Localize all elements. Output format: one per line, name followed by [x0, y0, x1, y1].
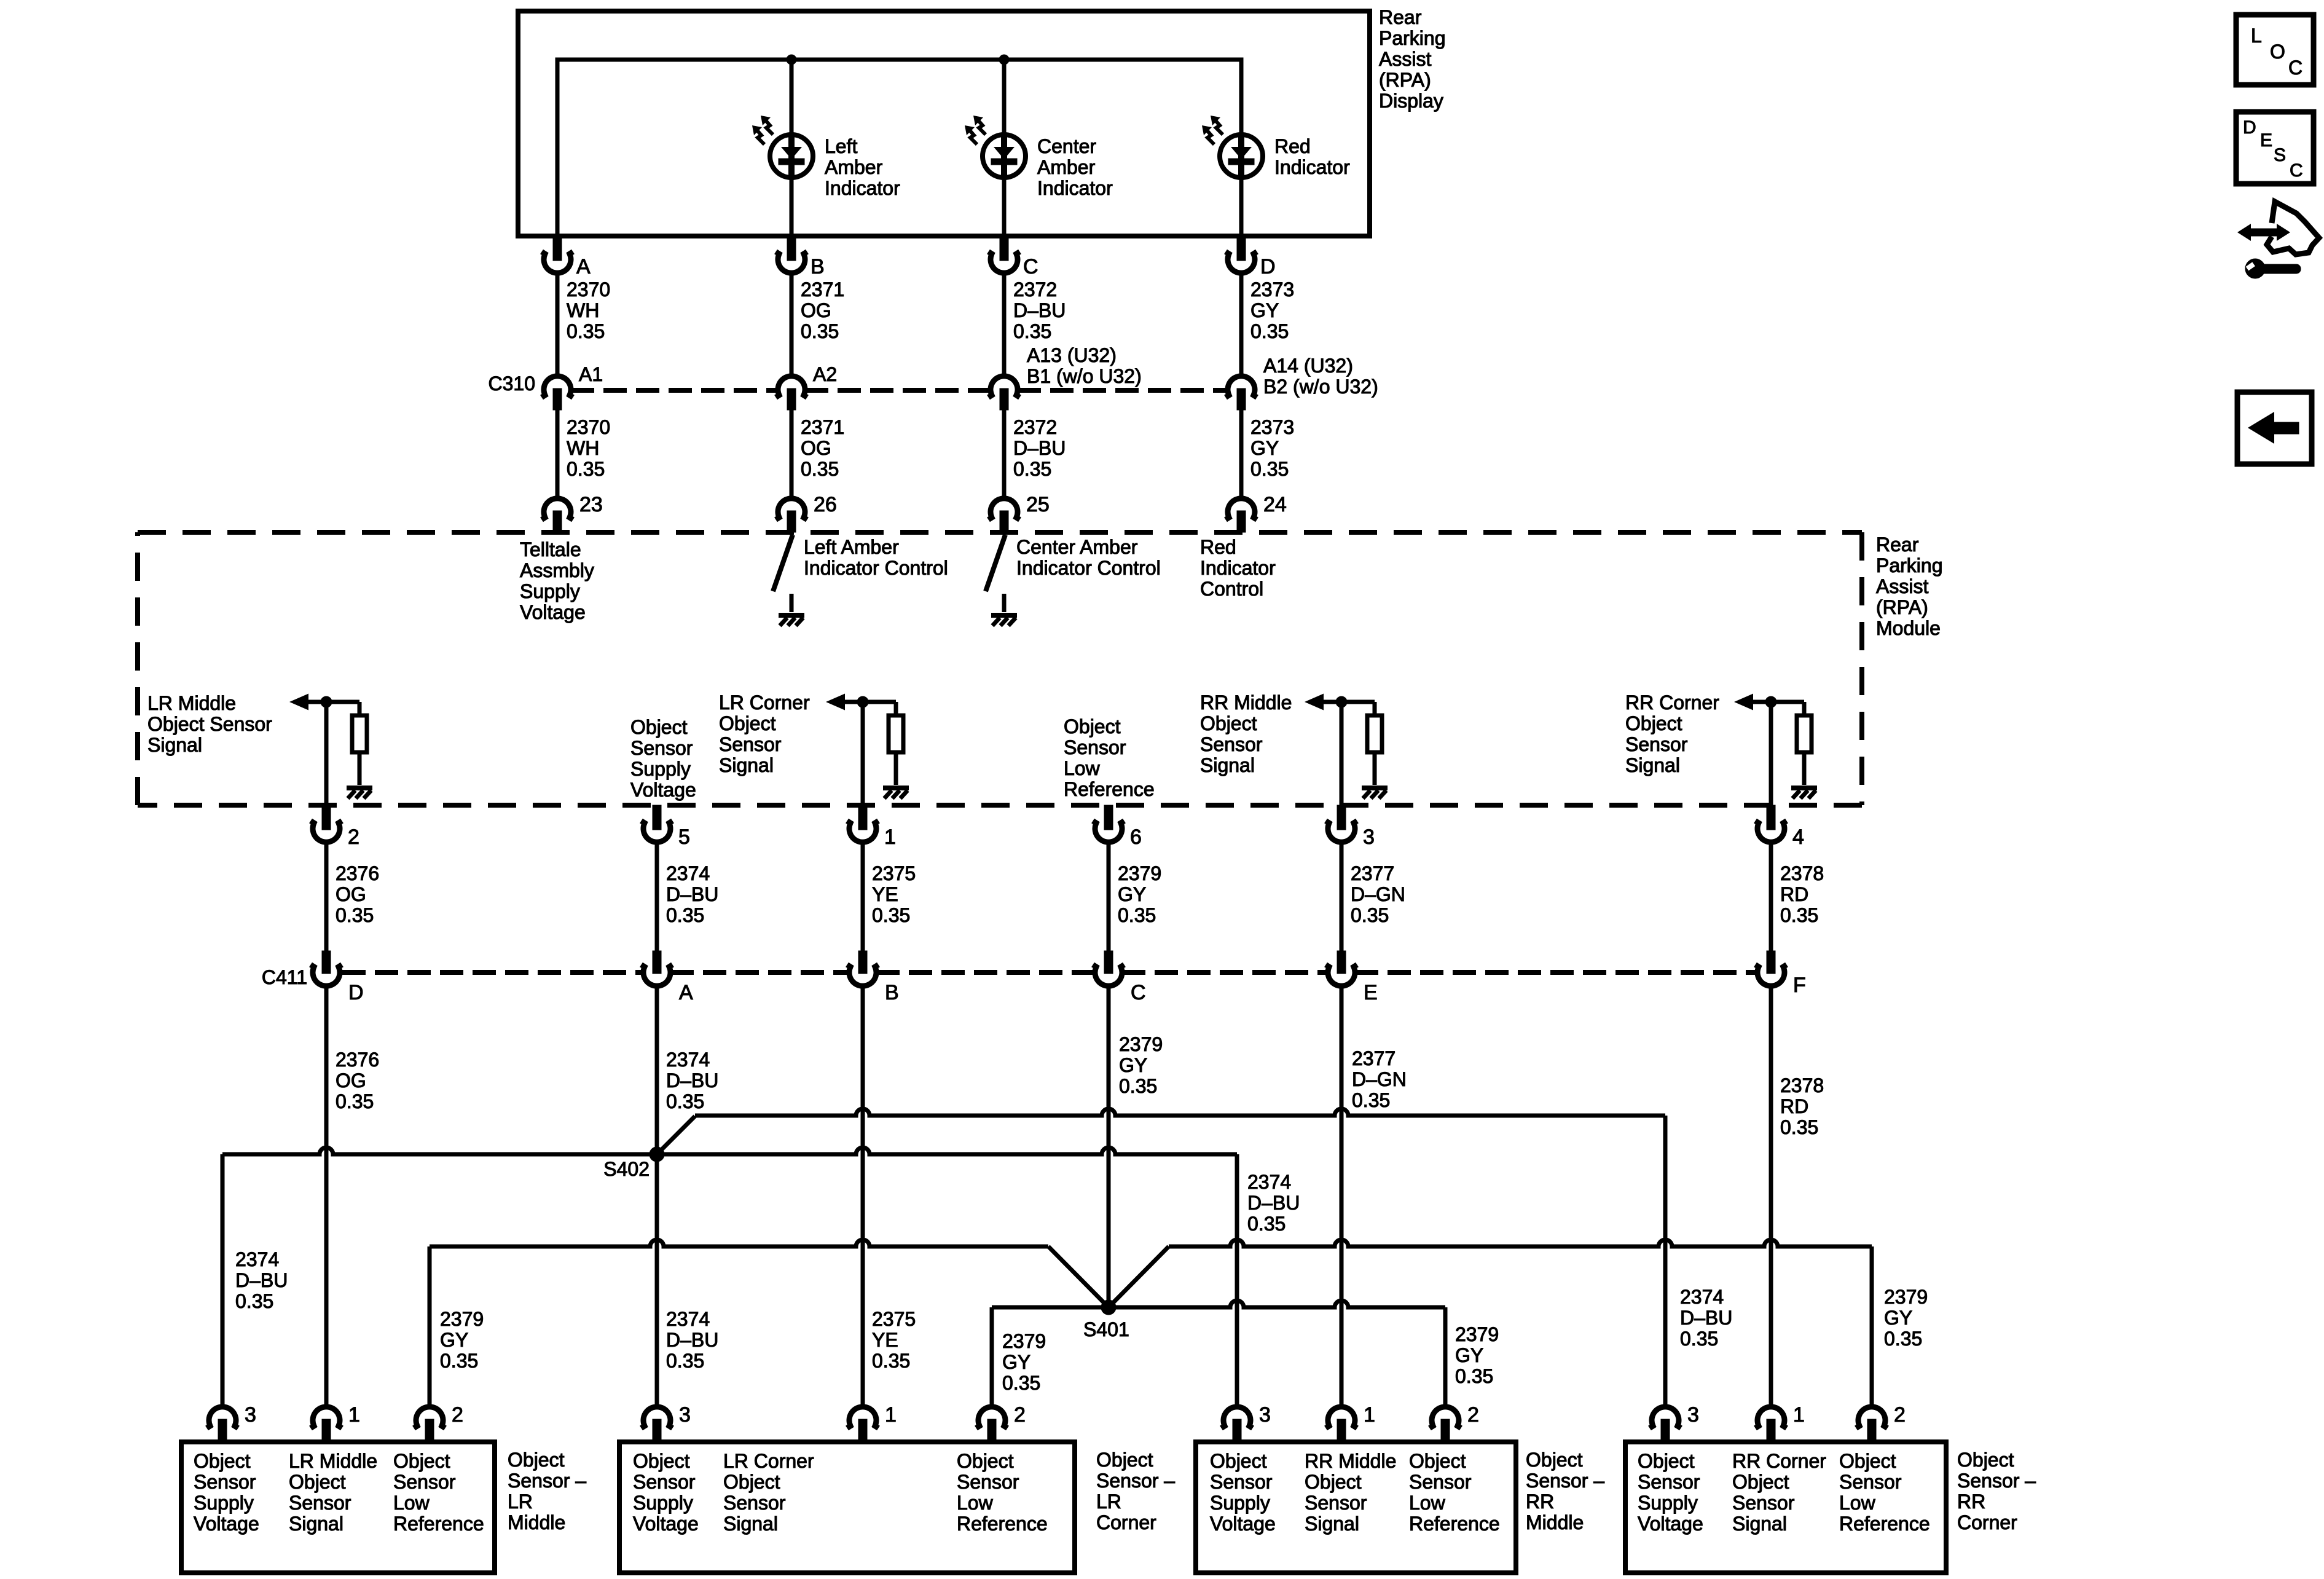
C310 terminal at x=1288	[776, 376, 807, 398]
svg-text:2379: 2379	[440, 1308, 484, 1330]
switch: Center Amber Indicator Control driver	[986, 535, 1005, 591]
svg-text:A1: A1	[579, 363, 603, 385]
svg-text:6: 6	[1130, 825, 1142, 849]
label: circuit 2377 D–GN	[1351, 862, 1405, 926]
svg-text:Signal: Signal	[147, 734, 202, 756]
label: RPA Module title	[1876, 534, 1943, 639]
svg-text:RD: RD	[1780, 883, 1808, 905]
svg-text:Assist: Assist	[1379, 48, 1431, 70]
svg-text:Left Amber: Left Amber	[804, 536, 899, 558]
svg-text:Object: Object	[1957, 1449, 2014, 1471]
svg-text:Sensor: Sensor	[194, 1471, 256, 1493]
icon: wrench	[2245, 259, 2301, 278]
ground: RR Middle resistor return	[1362, 788, 1388, 798]
label: circuit 2379 GY (branch)	[1884, 1286, 1928, 1350]
svg-text:0.35: 0.35	[801, 320, 839, 342]
svg-text:Signal: Signal	[719, 754, 774, 776]
svg-text:2: 2	[1894, 1403, 1906, 1427]
node: RR Corner signal junction	[1765, 696, 1776, 707]
svg-text:2371: 2371	[801, 278, 844, 301]
svg-text:Sensor: Sensor	[393, 1471, 456, 1493]
svg-text:Sensor –: Sensor –	[1957, 1470, 2036, 1492]
svg-text:Voltage: Voltage	[194, 1513, 259, 1535]
svg-text:D–GN: D–GN	[1351, 883, 1405, 905]
C310 terminal at x=907	[542, 376, 573, 398]
label: circuit 2372 D–BU (lower)	[1013, 416, 1066, 480]
label: circuit 2370 WH (lower)	[567, 416, 610, 480]
label: RR Middle object sensor Object...	[1409, 1450, 1500, 1535]
svg-text:2374: 2374	[666, 1308, 710, 1330]
svg-text:0.35: 0.35	[1680, 1328, 1718, 1350]
svg-text:0.35: 0.35	[666, 1090, 704, 1112]
pin 6 of RPA module lower connector	[1104, 805, 1113, 830]
svg-text:2: 2	[452, 1403, 463, 1427]
wire branch: low reference to LR Corner pin 2	[990, 1307, 994, 1407]
svg-text:Amber: Amber	[825, 156, 883, 178]
svg-text:O: O	[2270, 41, 2285, 63]
LED: Center Amber Indicator	[965, 116, 1026, 178]
ground	[991, 615, 1017, 626]
svg-text:1: 1	[885, 1403, 897, 1427]
svg-text:RR: RR	[1526, 1490, 1554, 1513]
label: RR Middle object sensor title	[1526, 1449, 1604, 1534]
svg-text:Display: Display	[1379, 90, 1443, 112]
svg-text:F: F	[1793, 974, 1806, 997]
svg-text:2370: 2370	[567, 416, 610, 438]
svg-text:LR: LR	[508, 1490, 533, 1513]
label: RR Corner object sensor Object...	[1638, 1450, 1703, 1535]
svg-text:Telltale: Telltale	[520, 538, 581, 561]
svg-text:Voltage: Voltage	[630, 779, 696, 801]
svg-text:0.35: 0.35	[1013, 458, 1051, 480]
label: circuit 2374 D–BU (branch)	[1247, 1171, 1300, 1235]
svg-text:Control: Control	[1200, 578, 1263, 600]
svg-text:2373: 2373	[1250, 278, 1294, 301]
node: RR Middle signal junction	[1336, 696, 1347, 707]
svg-text:Object: Object	[630, 716, 688, 738]
wire branch: low reference to RR Corner pin 2	[1870, 1246, 1874, 1407]
svg-text:1: 1	[1364, 1403, 1375, 1427]
svg-text:LR: LR	[1096, 1490, 1121, 1513]
svg-text:0.35: 0.35	[1352, 1089, 1390, 1111]
label: LR Middle object sensor LR Middle...	[289, 1450, 377, 1535]
svg-text:0.35: 0.35	[872, 904, 910, 926]
svg-text:0.35: 0.35	[666, 1350, 704, 1372]
pin 5 of RPA module lower connector	[653, 805, 661, 830]
wire branch: low reference to LR Middle pin 2	[428, 1246, 432, 1407]
svg-text:Left: Left	[825, 135, 857, 157]
pin 2 of LR Middle object sensor	[414, 1407, 446, 1428]
svg-text:2374: 2374	[1247, 1171, 1291, 1193]
svg-text:2374: 2374	[1680, 1286, 1724, 1308]
label: circuit 2379 GY (branch)	[1455, 1323, 1499, 1387]
label: circuit 2374 D–BU (branch)	[235, 1248, 288, 1312]
C411 terminal F	[1767, 951, 1775, 974]
node: splice S401	[1101, 1300, 1116, 1315]
svg-text:S: S	[2274, 145, 2286, 165]
icon: wiring repair (arrow + panel + wrench)	[2267, 202, 2319, 254]
arrow: LR Corner signal	[826, 694, 845, 711]
svg-text:Sensor: Sensor	[1305, 1492, 1367, 1514]
wire segment C310 to RPA module	[1239, 410, 1244, 498]
pin 1 of LR Middle object sensor	[311, 1407, 342, 1428]
svg-text:RR Corner: RR Corner	[1625, 691, 1719, 714]
svg-text:Indicator Control: Indicator Control	[804, 557, 948, 579]
box: RR Corner object sensor	[1625, 1442, 1946, 1573]
svg-text:RR: RR	[1957, 1490, 1985, 1513]
svg-text:D–BU: D–BU	[666, 1329, 718, 1351]
label: circuit 2378 RD (below C411)	[1780, 1074, 1824, 1138]
svg-text:Voltage: Voltage	[1210, 1513, 1276, 1535]
box: LR Corner object sensor	[619, 1442, 1075, 1573]
svg-text:GY: GY	[1250, 299, 1279, 321]
svg-text:(RPA): (RPA)	[1876, 596, 1928, 618]
pin B of RPA display connector	[787, 238, 796, 261]
label: Object Sensor Supply Voltage	[630, 716, 696, 801]
label: circuit 2373 GY (lower)	[1250, 416, 1294, 480]
wire: S401 to LR Corner pin 2	[992, 1305, 1109, 1310]
svg-text:Object: Object	[1625, 712, 1682, 734]
svg-text:2: 2	[348, 825, 359, 849]
label: LR Corner object sensor LR Corner...	[723, 1450, 814, 1535]
wire 2370 segment display to C310	[555, 273, 560, 376]
pin 1 of RR Middle object sensor	[1326, 1407, 1357, 1428]
svg-text:2377: 2377	[1352, 1047, 1396, 1069]
resistor: RR Corner pull-up	[1797, 715, 1812, 752]
pin 3 of LR Middle object sensor	[207, 1407, 238, 1428]
label: Center Amber Indicator	[1037, 135, 1113, 199]
svg-text:Signal: Signal	[1200, 754, 1255, 776]
svg-text:0.35: 0.35	[1118, 904, 1156, 926]
svg-text:C: C	[1023, 255, 1038, 278]
svg-text:S402: S402	[603, 1158, 650, 1180]
arrow: LR Middle signal	[289, 694, 308, 711]
label: C310 pin A14/B2	[1263, 355, 1378, 398]
label: LR Corner Object Sensor Signal	[719, 691, 810, 776]
connector C411 dashed line	[342, 970, 643, 975]
arrow: RR Middle signal	[1305, 694, 1324, 711]
svg-text:1: 1	[1793, 1403, 1805, 1427]
svg-text:Sensor: Sensor	[1625, 733, 1688, 755]
wire: RR Corner signal to pin	[1769, 702, 1773, 805]
svg-text:L: L	[2251, 25, 2262, 47]
label: RR Middle object sensor RR Middle...	[1305, 1450, 1396, 1535]
wire: diagonal from splice S401 (right)	[1109, 1246, 1169, 1307]
svg-text:C: C	[2288, 57, 2302, 79]
svg-text:0.35: 0.35	[336, 1090, 374, 1112]
wire 2379 GY: C411 C to splice S401	[1107, 986, 1111, 1307]
svg-text:0.35: 0.35	[1250, 458, 1289, 480]
svg-text:2374: 2374	[666, 862, 710, 884]
svg-text:B: B	[811, 255, 825, 278]
svg-text:Low: Low	[1839, 1492, 1876, 1514]
wire: S402 supply bus right segment	[657, 1148, 1237, 1154]
svg-text:2379: 2379	[1119, 1033, 1163, 1055]
svg-text:Sensor: Sensor	[1839, 1471, 1902, 1493]
label: circuit 2379 GY (branch)	[440, 1308, 484, 1372]
svg-text:A: A	[679, 981, 693, 1004]
svg-text:2379: 2379	[1455, 1323, 1499, 1345]
label: circuit 2374 D–BU (below C411)	[666, 1049, 718, 1112]
label: circuit 2375 YE (branch)	[872, 1308, 916, 1372]
wire: left amber indicator branch	[790, 60, 794, 236]
label: splice S401	[1083, 1318, 1129, 1341]
wire segment C310 to RPA module	[555, 410, 560, 498]
wire 2377 D-GN: C411 E to RR Middle sensor pin 1	[1340, 986, 1344, 1407]
svg-text:0.35: 0.35	[440, 1350, 478, 1372]
wire: low reference run to RR Corner pin 2	[1169, 1240, 1872, 1246]
svg-text:Object: Object	[633, 1450, 690, 1472]
pin 23 of RPA module	[542, 498, 573, 520]
svg-text:Object: Object	[289, 1471, 346, 1493]
resistor: LR Middle pull-up	[352, 715, 367, 752]
label: splice S402	[603, 1158, 650, 1180]
C411 terminal A	[653, 951, 661, 974]
label: RPA Display title	[1379, 6, 1446, 112]
svg-text:GY: GY	[1250, 437, 1279, 459]
svg-text:D–GN: D–GN	[1352, 1068, 1407, 1090]
svg-text:Indicator: Indicator	[1200, 557, 1276, 579]
svg-text:D–BU: D–BU	[1013, 299, 1066, 321]
label: circuit 2373 GY	[1250, 278, 1294, 342]
svg-text:E: E	[2260, 130, 2272, 151]
svg-text:Object: Object	[1732, 1471, 1789, 1493]
label: LR Middle object sensor Object...	[393, 1450, 484, 1535]
svg-text:0.35: 0.35	[1247, 1213, 1286, 1235]
svg-text:Center Amber: Center Amber	[1016, 536, 1138, 558]
label: LR Middle object sensor Object...	[194, 1450, 259, 1535]
connector C310 dashed line	[571, 388, 778, 393]
box: LR Middle object sensor	[181, 1442, 495, 1573]
svg-text:26: 26	[814, 493, 837, 516]
svg-text:Object: Object	[1096, 1449, 1153, 1471]
label: Object Sensor Low Reference	[1064, 715, 1155, 800]
svg-text:YE: YE	[872, 1329, 898, 1351]
svg-text:2379: 2379	[1002, 1330, 1046, 1352]
pin 2 of RPA module lower connector	[322, 805, 331, 830]
arrow: RR Corner signal	[1734, 694, 1753, 711]
svg-text:Sensor: Sensor	[957, 1471, 1019, 1493]
svg-text:E: E	[1364, 981, 1378, 1004]
svg-text:Indicator: Indicator	[825, 177, 900, 199]
label: LR Middle Object Sensor Signal	[147, 692, 272, 756]
wire branch: supply to RR Middle pin 3	[1235, 1154, 1239, 1407]
svg-text:23: 23	[579, 493, 603, 516]
svg-text:GY: GY	[1884, 1307, 1912, 1329]
label: C310 pin A2	[813, 363, 837, 385]
svg-text:D–BU: D–BU	[666, 883, 718, 905]
svg-text:D–BU: D–BU	[1247, 1192, 1300, 1214]
svg-text:Sensor –: Sensor –	[1096, 1470, 1175, 1492]
label: circuit 2372 D–BU	[1013, 278, 1066, 342]
svg-text:LR Corner: LR Corner	[719, 691, 810, 714]
svg-text:Object: Object	[957, 1450, 1014, 1472]
svg-text:GY: GY	[440, 1329, 468, 1351]
pin A of RPA display connector	[553, 238, 562, 261]
node: LR Corner signal junction	[857, 696, 868, 707]
svg-text:Corner: Corner	[1957, 1511, 2017, 1534]
svg-text:3: 3	[1259, 1403, 1271, 1427]
ground: LR Middle resistor return	[347, 788, 372, 798]
svg-text:0.35: 0.35	[336, 904, 374, 926]
svg-text:Supply: Supply	[633, 1492, 693, 1514]
svg-text:(RPA): (RPA)	[1379, 69, 1431, 91]
svg-text:0.35: 0.35	[567, 320, 605, 342]
pin 24 of RPA module	[1226, 498, 1257, 520]
svg-text:Middle: Middle	[1526, 1511, 1584, 1534]
svg-text:Rear: Rear	[1876, 534, 1919, 556]
wire: display internal supply bus	[557, 60, 1241, 236]
label: circuit 2370 WH	[567, 278, 610, 342]
svg-text:Sensor –: Sensor –	[1526, 1470, 1604, 1492]
icon: DESC box	[2236, 112, 2314, 184]
pin 26 of RPA module	[776, 498, 807, 520]
resistor: RR Middle pull-up	[1367, 715, 1382, 752]
label: Left Amber Indicator Control	[804, 536, 948, 579]
svg-text:Reference: Reference	[1064, 778, 1155, 800]
svg-text:3: 3	[1687, 1403, 1699, 1427]
svg-text:2374: 2374	[666, 1049, 710, 1071]
display box: Rear Parking Assist (RPA) Display	[518, 11, 1370, 236]
wire 2371 segment display to C310	[790, 273, 794, 376]
C411 terminal D	[322, 951, 331, 974]
svg-text:RR Middle: RR Middle	[1305, 1450, 1396, 1472]
label: Telltale Assmbly Supply Voltage	[520, 538, 594, 623]
svg-text:0.35: 0.35	[1884, 1328, 1922, 1350]
pin 1 of RPA module lower connector	[858, 805, 867, 830]
label: Center Amber Indicator Control	[1016, 536, 1161, 579]
svg-text:0.35: 0.35	[666, 904, 704, 926]
svg-text:2373: 2373	[1250, 416, 1294, 438]
svg-text:C411: C411	[262, 966, 307, 988]
label: RR Corner Object Sensor Signal	[1625, 691, 1719, 776]
ground: LR Corner resistor return	[883, 788, 909, 798]
svg-text:Object: Object	[1210, 1450, 1267, 1472]
C411 terminal B	[858, 951, 867, 974]
svg-text:2378: 2378	[1780, 862, 1824, 884]
svg-text:Object: Object	[719, 712, 776, 734]
svg-text:Assist: Assist	[1876, 575, 1928, 597]
svg-text:Supply: Supply	[630, 758, 691, 780]
label: circuit 2371 OG (lower)	[801, 416, 844, 480]
label: RR Middle Object Sensor Signal	[1200, 691, 1292, 776]
svg-text:Sensor: Sensor	[289, 1492, 351, 1514]
wire: LR Middle signal to pin	[324, 702, 329, 805]
svg-text:OG: OG	[801, 299, 831, 321]
svg-text:Signal: Signal	[289, 1513, 343, 1535]
svg-text:2379: 2379	[1884, 1286, 1928, 1308]
svg-text:B: B	[885, 981, 899, 1004]
label: connector C411	[262, 966, 307, 988]
C411 terminal E	[1337, 951, 1346, 974]
label: circuit 2379 GY (below C411)	[1119, 1033, 1163, 1097]
label: circuit 2376 OG	[336, 862, 379, 926]
wire 2378 RD: C411 F to RR Corner sensor pin 1	[1769, 986, 1773, 1407]
pin D of RPA display connector	[1237, 238, 1246, 261]
svg-text:Signal: Signal	[723, 1513, 778, 1535]
svg-text:D–BU: D–BU	[1013, 437, 1066, 459]
wire: LR Corner signal to pin	[861, 702, 865, 805]
svg-text:LR Middle: LR Middle	[289, 1450, 377, 1472]
C411 terminal C	[1104, 951, 1113, 974]
svg-text:Voltage: Voltage	[520, 601, 586, 623]
label: RR Corner object sensor RR Corner...	[1732, 1450, 1826, 1535]
label: LR Middle object sensor title	[508, 1449, 586, 1534]
svg-text:Sensor: Sensor	[723, 1492, 786, 1514]
wire: S402 branch to RR Corner supply (upper run)	[657, 1116, 695, 1154]
svg-text:2: 2	[1014, 1403, 1026, 1427]
svg-text:Object: Object	[1526, 1449, 1583, 1471]
svg-text:Indicator: Indicator	[1274, 156, 1350, 178]
label: LR Corner object sensor title	[1096, 1449, 1175, 1534]
label: LR Corner object sensor Object...	[957, 1450, 1048, 1535]
svg-text:D: D	[2243, 117, 2256, 138]
icon: LOC box	[2236, 15, 2314, 85]
svg-text:5: 5	[678, 825, 690, 849]
svg-text:WH: WH	[567, 299, 599, 321]
svg-text:2371: 2371	[801, 416, 844, 438]
svg-text:Reference: Reference	[1409, 1513, 1500, 1535]
svg-text:2377: 2377	[1351, 862, 1394, 884]
svg-text:1: 1	[348, 1403, 360, 1427]
svg-text:Assmbly: Assmbly	[520, 559, 594, 581]
label: Red Indicator	[1274, 135, 1350, 178]
svg-text:Center: Center	[1037, 135, 1096, 157]
node: LR Middle signal junction	[321, 696, 332, 707]
svg-text:GY: GY	[1119, 1054, 1147, 1076]
svg-text:3: 3	[245, 1403, 256, 1427]
svg-text:0.35: 0.35	[1780, 1116, 1818, 1138]
label: LR Corner object sensor Object...	[633, 1450, 699, 1535]
svg-text:Amber: Amber	[1037, 156, 1096, 178]
wire 2374 D-BU: C411 A to splice S402 and LR Corner pin 3	[655, 986, 659, 1407]
svg-text:Object: Object	[393, 1450, 450, 1472]
svg-text:Sensor: Sensor	[633, 1471, 696, 1493]
svg-text:D: D	[348, 981, 364, 1004]
label: circuit 2374 D–BU (branch)	[1680, 1286, 1732, 1350]
label: C310 pin A1	[579, 363, 603, 385]
svg-text:C: C	[1131, 981, 1146, 1004]
svg-text:Supply: Supply	[1210, 1492, 1270, 1514]
pin 3 of RR Corner object sensor	[1650, 1407, 1681, 1428]
svg-text:Object: Object	[1305, 1471, 1362, 1493]
label: circuit 2371 OG	[801, 278, 844, 342]
svg-text:Corner: Corner	[1096, 1511, 1156, 1534]
svg-text:A13 (U32): A13 (U32)	[1027, 344, 1117, 366]
wire 2376 OG: C411 D to LR Middle sensor pin 1	[324, 986, 329, 1407]
svg-text:3: 3	[679, 1403, 691, 1427]
C310 terminal at x=2020	[1226, 376, 1257, 398]
pin 1 of LR Corner object sensor	[847, 1407, 879, 1428]
svg-text:B1 (w/o U32): B1 (w/o U32)	[1027, 365, 1142, 387]
svg-text:Reference: Reference	[1839, 1513, 1930, 1535]
pin 3 of RPA module lower connector	[1337, 805, 1346, 830]
svg-text:0.35: 0.35	[235, 1290, 273, 1312]
wire 2372 segment display to C310	[1002, 273, 1007, 376]
wire 2373 segment display to C310	[1239, 273, 1244, 376]
wire: S401 to RR Middle pin 2	[1109, 1301, 1445, 1307]
svg-text:Low: Low	[393, 1492, 430, 1514]
svg-text:B2 (w/o U32): B2 (w/o U32)	[1263, 376, 1378, 398]
svg-text:S401: S401	[1083, 1318, 1129, 1341]
svg-text:OG: OG	[336, 883, 366, 905]
wire segment C310 to RPA module	[790, 410, 794, 498]
svg-text:Parking: Parking	[1379, 27, 1446, 49]
pin C of RPA display connector	[1000, 238, 1008, 261]
pin 4 of RPA module lower connector	[1767, 805, 1775, 830]
svg-text:0.35: 0.35	[1119, 1075, 1157, 1097]
label: Left Amber Indicator	[825, 135, 900, 199]
